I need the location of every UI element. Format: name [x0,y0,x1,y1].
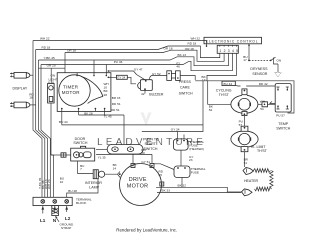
svg-text:RD 51: RD 51 [112,102,121,106]
label F2 46 [176,62,180,69]
svg-text:START: START [145,142,157,146]
interior lamp plug [93,170,98,179]
svg-text:MOTOR: MOTOR [127,183,148,189]
svg-text:54: 54 [260,107,264,111]
svg-text:CARE: CARE [180,85,190,89]
svg-text:MOTOR: MOTOR [62,90,80,95]
timer box [57,73,111,112]
label BU 7 [80,164,84,171]
label BU 10 [60,177,64,184]
wire left vertical v2 [36,50,45,198]
label BK 52 [209,105,214,112]
EC terminal box 12345 [217,45,240,53]
svg-text:RD 42: RD 42 [259,82,268,86]
wire timer to buzzer [111,77,136,84]
boxed label BU 44 [222,81,235,86]
svg-text:OR 18: OR 18 [164,47,173,51]
label THERMAL FUSE (HEATER) [189,140,204,151]
svg-text:(HEATER): (HEATER) [189,147,203,151]
EC left pin [206,44,208,47]
terminal block [33,197,72,205]
wire left vertical v4 [41,65,50,198]
wire Y-BK45 bus [39,53,229,72]
EC right wire to sensor [248,44,250,62]
terminal N arrow [53,206,56,214]
svg-text:RD 51: RD 51 [111,108,120,112]
label DOOR SWITCH [73,137,87,145]
wire door down [78,161,94,173]
wire OR20 [39,68,66,83]
svg-text:17: 17 [202,78,206,82]
wire fuse1 to fuse2 [180,150,182,166]
label PRESS CARE SWITCH [179,80,193,96]
label RD 50 [141,148,146,155]
wire door area to motor pins [96,154,152,163]
label GROUND STRAP [55,216,74,230]
wire WH22 bus [33,41,207,45]
temp switch actuator [270,102,276,104]
label PU 57 wire [239,120,243,127]
timer bottom pin 4 [104,108,106,112]
timer right pin a [108,70,111,72]
svg-text:FUSE: FUSE [191,170,199,174]
timer right labels [104,82,109,97]
svg-text:17: 17 [243,58,247,62]
svg-text:Y-BK 45: Y-BK 45 [44,56,56,60]
door switch box [71,146,95,161]
svg-text:WH 22: WH 22 [191,36,201,40]
door switch plug [55,153,71,157]
svg-text:SWITCH: SWITCH [179,92,193,96]
svg-text:L1: L1 [40,218,46,223]
wire BU44 lower [62,111,203,125]
timer top pin 1 [76,73,78,77]
svg-text:OR 18: OR 18 [185,47,194,51]
motor pin right [160,182,164,186]
svg-text:52: 52 [209,108,213,112]
svg-text:GY 24: GY 24 [117,76,125,80]
label HI-LIMIT TH'ST [251,145,268,153]
cycling thermostat [231,89,258,116]
svg-text:PU 57: PU 57 [276,113,285,117]
label ON LIGHT [49,74,58,82]
svg-text:GY 24: GY 24 [171,128,180,132]
svg-text:OR 20: OR 20 [47,64,56,68]
drive motor [120,164,162,206]
wire door to N [51,154,55,156]
svg-text:YL 35: YL 35 [98,155,106,159]
wire cycling right to temp [258,102,275,107]
sensor electrode [275,64,281,77]
svg-text:GY 52: GY 52 [152,72,161,76]
svg-text:L2: L2 [65,216,71,221]
label DRIVE MOTOR [127,177,148,189]
wire left vertical v3 [39,60,48,197]
hi-limit thermostat [231,126,258,152]
wire bus5 [41,53,232,72]
label TIMER MOTOR [62,85,80,95]
label TERMINAL BLOCK [76,198,92,206]
svg-text:18: 18 [29,96,33,100]
svg-text:GY 47: GY 47 [134,68,143,72]
label GY 23 [189,155,193,162]
wire BU28 [67,179,98,198]
svg-text:10: 10 [60,180,64,184]
wire BK32 [156,187,242,192]
svg-text:DISPLAY: DISPLAY [13,87,28,91]
svg-text:BR 15: BR 15 [112,96,121,100]
interior lamp bulb [99,171,105,177]
svg-text:14: 14 [113,166,117,170]
wire gy47 to buzzer [137,75,146,81]
motor pin top left [131,164,135,168]
timer bottom pin 3 [95,108,97,112]
temp switch pin TR [286,87,289,91]
svg-text:HEATER: HEATER [244,179,259,183]
wire timer to press care upper [111,71,137,75]
press care switch [167,71,195,81]
wire GY24 line [142,81,203,132]
svg-text:42: 42 [141,92,145,96]
ground strap [52,206,59,216]
display connector bottom [10,102,36,108]
temp switch pin BL [277,105,280,109]
main bus y80.8 [195,81,294,113]
svg-text:PRESS: PRESS [179,80,192,84]
label TEMP SWITCH [276,122,290,130]
svg-text:OR 18: OR 18 [67,49,76,53]
wire terminal5 drop [207,53,237,81]
svg-text:BU 44: BU 44 [224,82,233,86]
motor pin top right [150,164,154,168]
svg-text:TH'ST: TH'ST [257,149,268,153]
wire below timer h [79,111,124,131]
svg-text:SWITCH: SWITCH [276,126,290,130]
timer top pin 2 [93,73,95,77]
buzzer [138,80,153,94]
svg-text:ON: ON [277,58,282,62]
heater coil [254,169,274,191]
svg-text:RD 18: RD 18 [42,46,51,50]
motor pin left [119,173,121,175]
boxed label GY 24 [117,75,128,79]
svg-text:7: 7 [80,167,82,171]
wire lamp to motor [105,172,120,178]
label RD 55 [159,170,164,177]
svg-text:LIGHT: LIGHT [49,78,58,82]
on light lamp [48,84,55,198]
svg-text:PU 46: PU 46 [114,60,123,64]
heater plug bottom [242,189,253,196]
label INTERIOR LAMP [85,181,102,190]
svg-text:WH 22: WH 22 [40,37,50,41]
label DRYNESS SENSOR [250,67,268,76]
wire BK33 [157,192,241,194]
svg-text:BU 28: BU 28 [68,189,77,193]
svg-text:PUSH TO: PUSH TO [143,137,159,141]
svg-text:SWITCH: SWITCH [73,141,87,145]
timer right pin b [108,77,111,79]
svg-text:TIMER: TIMER [63,85,79,90]
terminal L2 arrow [65,206,68,212]
svg-text:BK 13: BK 13 [178,53,187,57]
svg-text:BK 33: BK 33 [162,189,171,193]
wire door to push start [96,149,107,151]
label buzzer pin [141,92,145,96]
svg-text:ELECTRONIC CONTROL: ELECTRONIC CONTROL [206,39,258,43]
wire push to start up [123,132,125,145]
svg-text:BLOCK: BLOCK [76,201,87,205]
wire left vertical v1 [33,41,42,198]
timer bottom pin 2 [78,108,80,112]
label RD 18 display [29,93,34,100]
svg-text:DRYNESS: DRYNESS [250,67,268,71]
svg-text:TH'ST: TH'ST [219,93,230,97]
vertical BK52 [208,81,231,105]
thermal fuse heater box [173,132,188,151]
timer top pin 3 [106,73,108,77]
temp switch pin TL [277,87,280,91]
label THERMAL FUSE [191,167,206,175]
thermal fuse box [174,166,190,178]
svg-text:INTERIOR: INTERIOR [85,181,102,185]
svg-text:SENSOR: SENSOR [252,72,267,76]
label BR 51 [244,158,249,165]
svg-text:WH 23: WH 23 [47,179,51,189]
heater plug top [243,168,254,175]
wire buzzer to press care [150,76,168,80]
wire OR18 bus [65,50,224,72]
wire fuse2 bottom [181,178,183,188]
svg-text:51: 51 [244,161,248,165]
dryness sensor switch [271,57,278,64]
svg-text:12345: 12345 [219,49,240,53]
temp switch box [275,84,291,112]
dryness sensor dashed wire [249,60,272,62]
label WH 54 [260,100,265,112]
svg-text:46: 46 [176,65,180,69]
label BK 14 [113,163,118,170]
svg-text:DRIVE: DRIVE [129,177,147,183]
label BU 17 [243,55,247,62]
wire cycling to hilimit [243,116,245,127]
timer bottom pin 1 [61,108,63,112]
svg-text:WH: WH [260,100,265,104]
display connector top [10,72,33,78]
watermark logo V [141,113,152,127]
svg-text:BUZZER: BUZZER [149,93,164,97]
svg-text:RD 18: RD 18 [188,42,197,46]
svg-text:BU 44: BU 44 [59,120,68,124]
terminal L1 arrow [41,206,44,214]
push to start switch [107,145,143,155]
svg-text:23: 23 [189,158,193,162]
electronic control box [204,37,262,44]
label WH 14 [0,0,1,1]
wire RD18 bus [36,46,220,58]
wire hilimit to heater [244,152,246,167]
timer motor [59,75,103,106]
label CYCLING TH'ST [216,89,232,97]
temp switch pin BR [286,105,289,109]
label PUSH TO START SWITCH [143,137,159,151]
svg-text:Rendered by LeadVenture, Inc.: Rendered by LeadVenture, Inc. [116,228,177,233]
wire BU44 to cycling [235,84,275,87]
svg-text:STRAP: STRAP [61,226,71,230]
svg-text:28: 28 [104,93,108,97]
wire fuse2 left to motor [153,164,174,170]
